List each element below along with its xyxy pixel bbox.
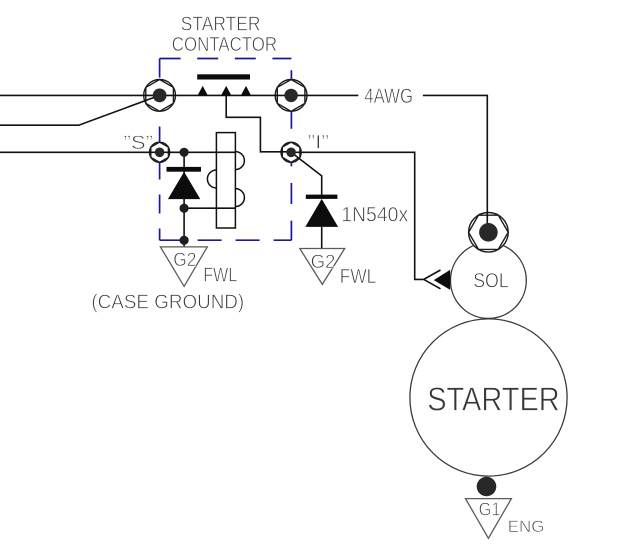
terminal I stud (281, 142, 301, 162)
contactor dashed outline box (160, 59, 292, 241)
wire second feed with bend (0, 95, 160, 125)
ground G1 ENG triangle (466, 499, 512, 539)
svg-text:”I”: ”I” (308, 132, 330, 154)
svg-text:FWL: FWL (340, 266, 376, 288)
diode D1 (S coil suppression) cathode bar (167, 167, 202, 172)
svg-text:G2: G2 (311, 251, 336, 273)
node case ground junction dot (180, 236, 189, 245)
diode D1 body (168, 172, 200, 199)
wire S terminal to coil (160, 151, 236, 153)
wire S input y=152.3 (0, 151, 160, 153)
solenoid SOL circle (451, 243, 527, 319)
diode 1N540x cathode bar (306, 195, 338, 199)
svg-text:FWL: FWL (203, 264, 237, 286)
svg-text:(CASE GROUND): (CASE GROUND) (91, 292, 244, 314)
terminal B+ left (large stud) (144, 80, 176, 112)
contact tip middle (221, 86, 232, 96)
wire coil bottom to diode mid node (184, 207, 235, 209)
svg-text:G1: G1 (479, 499, 501, 519)
terminal S stud (150, 142, 170, 162)
ground G2 FWL (case ground) triangle (160, 247, 207, 287)
terminal center SOL (479, 223, 498, 242)
node S junction dot (180, 148, 189, 157)
coil winding (207, 133, 244, 228)
wire I terminal diagonal to diode 1N540x (291, 152, 322, 195)
svg-text:”S”: ”S” (124, 132, 154, 154)
contact tip left (197, 86, 208, 96)
diode 1N540x body (305, 199, 338, 227)
spade connector filled blade (434, 270, 450, 290)
svg-text:4AWG: 4AWG (364, 85, 413, 108)
contact tip right (241, 86, 252, 96)
wire 4AWG to solenoid (423, 95, 487, 232)
terminal center S (155, 148, 165, 158)
starter ground stud dot (477, 477, 497, 497)
terminal center I (286, 148, 296, 158)
wire I terminal to solenoid spade (291, 152, 424, 279)
terminal SOL stud (469, 213, 509, 253)
svg-text:STARTER: STARTER (427, 382, 560, 419)
wire diode branch down (183, 152, 185, 246)
terminal center B+ left (153, 89, 167, 103)
svg-text:SOL: SOL (473, 269, 509, 292)
svg-text:STARTER: STARTER (181, 14, 261, 36)
wire moving contact to I terminal (226, 95, 291, 151)
ground G2 FWL (1N540x) triangle (300, 249, 345, 285)
wire diode 1N540x to ground (321, 227, 323, 249)
terminal center B+ right (284, 89, 297, 102)
svg-text:CONTACTOR: CONTACTOR (172, 34, 277, 56)
spade connector open arrow (424, 270, 441, 289)
terminal B+ right (large stud) (275, 80, 307, 112)
contact bar (197, 74, 250, 79)
node coil bottom junction dot (180, 204, 189, 213)
svg-text:G2: G2 (173, 249, 196, 271)
wire battery feed y=95.4 left of 4AWG label (0, 94, 358, 96)
svg-text:1N540x: 1N540x (341, 204, 408, 227)
svg-text:ENG: ENG (508, 517, 545, 536)
motor STARTER circle (410, 319, 567, 476)
